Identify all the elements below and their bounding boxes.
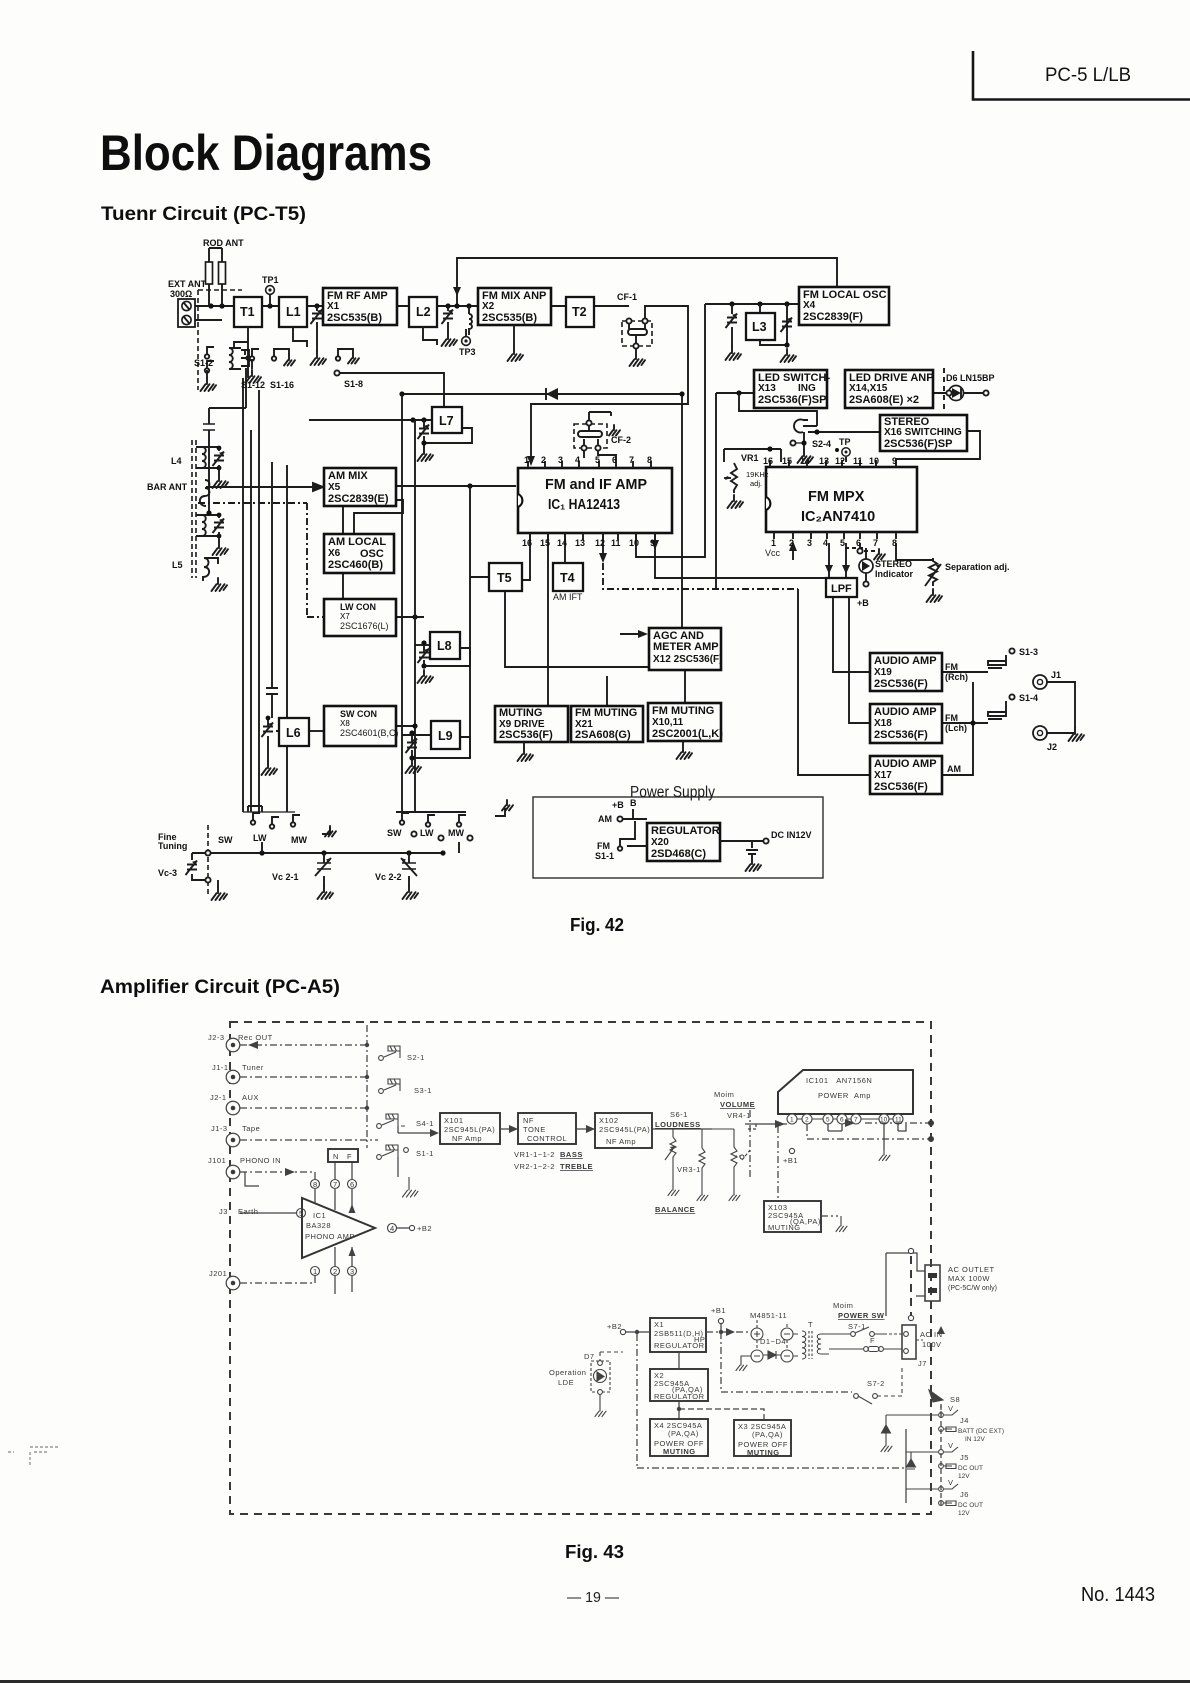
svg-text:12V: 12V [958, 1510, 970, 1517]
svg-text:X5: X5 [328, 482, 341, 493]
test point TP at MPX [835, 437, 851, 462]
svg-text:8: 8 [647, 455, 652, 465]
wire: LED drive to D6 [933, 392, 985, 394]
bar antenna dashed core [192, 440, 196, 578]
wire: AM to audio amp X17 [798, 589, 870, 775]
wire: X21 muting feed [606, 676, 608, 706]
op-amp pin 6 [348, 1180, 357, 1189]
wire: T5 input column [470, 486, 489, 758]
mixer X5 AM MIX [324, 468, 396, 506]
svg-text:T1: T1 [240, 305, 255, 319]
svg-text:7: 7 [629, 455, 634, 465]
svg-text:3: 3 [558, 455, 563, 465]
amp X2 FM MIX ANP [478, 288, 551, 325]
tuned circuit beside S1-2 [229, 348, 249, 369]
wire: stereo S2-4 row [808, 431, 880, 433]
svg-text:11: 11 [611, 538, 621, 548]
svg-text:X1: X1 [654, 1320, 664, 1329]
wire: X1 to rectifier [706, 1331, 751, 1333]
main power switch S7-1 [829, 1301, 885, 1336]
svg-text:2SC536(F)SP: 2SC536(F)SP [884, 438, 952, 450]
switch S4-1 [377, 1114, 434, 1128]
scan artifact bottom edge [0, 1680, 1190, 1683]
svg-text:S2-1: S2-1 [407, 1053, 425, 1062]
op-amp pin 5 [297, 1209, 306, 1218]
svg-text:Vc-3: Vc-3 [158, 868, 177, 878]
svg-text:MW: MW [448, 828, 464, 838]
svg-text:6: 6 [840, 1117, 844, 1124]
power amp IC101 AN7156N [778, 1070, 913, 1114]
tuning cap Vc2-2 [375, 853, 418, 899]
test point TP1 [262, 275, 279, 306]
op-amp pin 7 [331, 1180, 340, 1189]
svg-text:Indicator: Indicator [875, 569, 914, 579]
svg-text:X7: X7 [340, 612, 350, 621]
svg-text:L3: L3 [752, 320, 767, 334]
wire to bus [262, 828, 330, 853]
svg-text:ING: ING [798, 383, 816, 394]
wire: X2 to muting amps [678, 1401, 680, 1419]
power supply enclosure [533, 797, 823, 878]
converter X7 LW CON [324, 599, 396, 636]
svg-text:FM LOCAL OSC: FM LOCAL OSC [803, 289, 887, 301]
svg-text:2SC536(F): 2SC536(F) [874, 678, 928, 690]
svg-text:No. 1443: No. 1443 [1081, 1584, 1155, 1606]
svg-text:FM: FM [945, 662, 958, 672]
svg-text:2SC535(B): 2SC535(B) [482, 312, 537, 324]
wire: X102 to loudness [652, 1128, 712, 1130]
wire: CF-1 output to IC1 pin1 [531, 306, 688, 461]
svg-text:Block Diagrams: Block Diagrams [100, 125, 432, 181]
svg-text:Tuner: Tuner [242, 1063, 264, 1072]
wire: switch commons [398, 1126, 436, 1177]
ground at MPX pin6 [874, 549, 885, 560]
wire: tone control to X102 [576, 1128, 595, 1130]
node: junction dots on signal row [208, 303, 213, 308]
wire: X1 to X2 [678, 1352, 680, 1369]
AC inlet J7 [884, 1325, 945, 1368]
svg-text:12V: 12V [958, 1473, 970, 1480]
header rule for model name [973, 51, 1190, 100]
main volume pot VR4-1 [712, 1090, 755, 1201]
coil L5 winding [196, 515, 219, 536]
svg-text:X14,X15: X14,X15 [849, 383, 888, 394]
svg-text:1: 1 [771, 538, 776, 548]
wire: pin5 stub [828, 1124, 842, 1131]
amp X19 AUDIO AMP [870, 653, 942, 691]
amp X9 MUTING DRIVE [495, 706, 568, 742]
svg-text:2SC536(F): 2SC536(F) [499, 729, 553, 741]
jack J101 PHONO IN [226, 1165, 240, 1179]
wire: selector bus vertical [366, 1025, 368, 1148]
node diode line junctions [399, 391, 404, 396]
svg-text:AM MIX: AM MIX [328, 470, 368, 482]
svg-text:10: 10 [869, 456, 879, 466]
svg-text:L2: L2 [416, 305, 431, 319]
svg-text:LW CON: LW CON [340, 602, 376, 612]
svg-text:BAR ANT: BAR ANT [147, 482, 188, 492]
regulator X2 [650, 1369, 708, 1401]
svg-text:S1-4: S1-4 [1019, 693, 1038, 703]
svg-text:8: 8 [892, 538, 897, 548]
transformer T5 [489, 563, 522, 591]
osc X4 FM LOCAL OSC [799, 287, 889, 325]
svg-text:1: 1 [790, 1117, 794, 1124]
fuse F [829, 1336, 902, 1352]
amp X101 NF Amp [440, 1113, 500, 1144]
wire: IC1 pin15 to muting drive [547, 533, 549, 706]
trimmer L5 [213, 513, 229, 555]
jack J2-1 AUX [226, 1101, 240, 1115]
power transformer T [793, 1320, 829, 1359]
svg-text:L9: L9 [438, 729, 453, 743]
stereo indicator LED [857, 559, 914, 608]
svg-text:6: 6 [856, 538, 861, 548]
node: local osc row dots [729, 301, 734, 306]
svg-text:S1-16: S1-16 [270, 380, 294, 390]
svg-text:— 19 —: — 19 — [567, 1589, 619, 1606]
svg-text:S7-2: S7-2 [867, 1379, 885, 1388]
wire: left long columns to band switches [243, 378, 287, 812]
svg-text:BASS: BASS [560, 1150, 583, 1159]
op-amp pin 4 output [388, 1224, 397, 1233]
N F feedback box [328, 1149, 358, 1162]
trimmer after L2 [442, 306, 458, 346]
svg-text:N: N [333, 1152, 339, 1161]
switch SW1 pole [248, 806, 262, 812]
svg-text:S1-12: S1-12 [241, 380, 265, 390]
wire: IC1 pin12 AM line [602, 533, 604, 558]
svg-text:D6 LN15BP: D6 LN15BP [946, 373, 995, 383]
svg-text:J7: J7 [918, 1359, 927, 1368]
svg-text:BATT (DC EXT): BATT (DC EXT) [958, 1428, 1004, 1435]
svg-text:2SC460(B): 2SC460(B) [328, 559, 383, 571]
svg-text:L5: L5 [172, 560, 183, 570]
svg-text:VR1-1~1-2: VR1-1~1-2 [514, 1150, 555, 1159]
svg-text:5: 5 [299, 1209, 304, 1218]
wire: X101 to tone control [500, 1128, 518, 1130]
svg-text:FM MPX: FM MPX [808, 489, 865, 505]
svg-text:AUDIO AMP: AUDIO AMP [874, 706, 937, 718]
jack J2-3 Rec OUT [226, 1038, 240, 1052]
relay S8 [929, 1390, 960, 1404]
svg-text:L8: L8 [437, 639, 452, 653]
svg-text:MAX 100W: MAX 100W [948, 1274, 990, 1283]
ground under muting drive X9 [518, 742, 534, 761]
svg-text:D7: D7 [584, 1352, 595, 1361]
svg-text:BA328: BA328 [306, 1221, 331, 1230]
svg-text:CF-1: CF-1 [617, 292, 637, 302]
svg-text:16: 16 [763, 456, 773, 466]
terminal S1-8 [334, 370, 339, 375]
coil L8 [430, 632, 460, 659]
wire: IC1 pin16 to T5 [522, 533, 530, 580]
svg-text:TP3: TP3 [459, 347, 476, 357]
wire: B2 rail down [637, 1334, 905, 1468]
svg-text:PHONO IN: PHONO IN [240, 1156, 281, 1165]
switch S7-2 [854, 1366, 902, 1404]
svg-text:X19: X19 [874, 667, 892, 678]
svg-text:2SD468(C): 2SD468(C) [651, 848, 706, 860]
svg-text:IC1: IC1 [313, 1211, 326, 1220]
svg-text:J2-3: J2-3 [208, 1033, 225, 1042]
arrow into AGC [638, 630, 648, 638]
svg-text:(Rch): (Rch) [945, 672, 968, 682]
output selector S1-3 [988, 647, 1038, 668]
svg-text:TP: TP [839, 437, 851, 447]
svg-text:PC-5 L/LB: PC-5 L/LB [1045, 65, 1131, 86]
svg-text:(PA,QA): (PA,QA) [668, 1429, 699, 1438]
svg-text:2SA608(E) ×2: 2SA608(E) ×2 [849, 394, 919, 406]
wire: MPX pin8 separation network [896, 543, 933, 560]
capacitor on column x272 [266, 688, 278, 694]
node LED feed [736, 390, 741, 395]
switch S2-4 [790, 420, 831, 464]
trimmer L9 [406, 739, 418, 754]
svg-text:DC IN12V: DC IN12V [771, 830, 812, 840]
coil after L2 [469, 306, 472, 335]
svg-text:J2-1: J2-1 [210, 1093, 227, 1102]
wire: J1 J2 ground link [1047, 682, 1075, 733]
wire: stereo indicator chain [865, 548, 867, 581]
switch S1-12 [241, 349, 265, 390]
svg-text:J4: J4 [960, 1416, 969, 1425]
amp X17 AUDIO AMP [870, 756, 942, 794]
svg-text:X20: X20 [651, 837, 669, 848]
svg-text:S1-1: S1-1 [595, 851, 614, 861]
tuning cap Vc2-1 [272, 853, 333, 899]
svg-text:2SC536(F): 2SC536(F) [874, 781, 928, 793]
trimmer L8 [418, 649, 430, 664]
arrow into IC1 pin 1 [527, 456, 535, 466]
wire: earth to op-amp [240, 1212, 297, 1214]
transformer T1 [234, 297, 262, 327]
svg-text:SW: SW [387, 828, 402, 838]
svg-text:LOUDNESS: LOUDNESS [655, 1120, 701, 1129]
svg-text:NF: NF [523, 1116, 534, 1125]
svg-text:9: 9 [892, 456, 897, 466]
svg-text:9: 9 [650, 538, 655, 548]
coil L1 [279, 297, 307, 327]
rectifier M4851-11 D1-D4 [736, 1311, 793, 1371]
trimmer L4 [213, 446, 229, 488]
osc X6 AM LOCAL OSC [324, 534, 394, 573]
svg-text:+B: +B [612, 800, 624, 810]
svg-text:Power Supply: Power Supply [630, 784, 715, 801]
potentiometer VR1 19KHz adj [724, 453, 769, 508]
svg-text:MW: MW [291, 835, 307, 845]
svg-text:Amplifier Circuit (PC-A5): Amplifier Circuit (PC-A5) [100, 977, 340, 998]
svg-text:Operation: Operation [549, 1368, 586, 1377]
rod antenna resistors [203, 238, 244, 306]
wire: pin10 ground [883, 1124, 885, 1150]
muting amp X3 [734, 1420, 791, 1456]
svg-text:SW: SW [218, 835, 233, 845]
bar loop winding [200, 480, 323, 506]
svg-text:FM: FM [597, 841, 610, 851]
DC jack group J5 [939, 1441, 983, 1480]
svg-text:+B2: +B2 [417, 1224, 432, 1233]
wire: long column x415 [414, 420, 416, 812]
wire: X103 to ground [821, 1215, 838, 1217]
svg-text:12: 12 [835, 456, 845, 466]
svg-text:L7: L7 [439, 414, 454, 428]
switch S1-16 [270, 349, 295, 390]
svg-text:J3: J3 [219, 1207, 228, 1216]
wire: outlet to power sw [886, 1253, 925, 1316]
svg-text:CF-2: CF-2 [611, 435, 631, 445]
wire: L3 connections [732, 304, 787, 347]
svg-text:LPF: LPF [831, 583, 852, 595]
svg-text:V: V [948, 1478, 954, 1487]
svg-text:IN 12V: IN 12V [965, 1436, 986, 1443]
NF tone control block [518, 1113, 576, 1144]
svg-text:Vcc: Vcc [765, 548, 781, 558]
converter X8 SW CON [324, 706, 396, 746]
svg-text:(PA,QA): (PA,QA) [752, 1430, 783, 1439]
svg-text:S8: S8 [950, 1395, 960, 1404]
jack J1-3 Tape [226, 1133, 240, 1147]
svg-text:3: 3 [807, 538, 812, 548]
wire: muting feed vertical [684, 670, 686, 703]
svg-text:13: 13 [575, 538, 585, 548]
svg-text:AC OUTLET: AC OUTLET [948, 1265, 995, 1274]
svg-text:8: 8 [313, 1180, 318, 1189]
svg-text:5: 5 [826, 1117, 830, 1124]
amp X12 AGC AND METER AMP [649, 628, 721, 670]
contact rail [243, 811, 295, 813]
svg-text:Earth: Earth [238, 1207, 258, 1216]
wire: feedback top line to FM local osc [457, 258, 837, 306]
svg-text:NF Amp: NF Amp [452, 1134, 482, 1143]
ground under X2 [508, 325, 524, 361]
diode to J4 [881, 1415, 938, 1489]
diode D6 LN15BP [946, 373, 995, 401]
svg-text:+B1: +B1 [783, 1156, 798, 1165]
ground below switches [403, 1177, 419, 1197]
wire: FM local osc row [705, 303, 799, 305]
svg-text:+B: +B [857, 598, 869, 608]
svg-text:1: 1 [313, 1267, 318, 1276]
svg-text:S3-1: S3-1 [414, 1086, 432, 1095]
amp X10 X11 FM MUTING [648, 703, 721, 741]
coil L3 [746, 313, 775, 340]
svg-text:Rec OUT: Rec OUT [238, 1033, 273, 1042]
switch S1-1 [377, 1145, 434, 1159]
ground CF-2 [609, 425, 620, 436]
svg-text:2SC535(B): 2SC535(B) [327, 312, 382, 324]
svg-text:+B1: +B1 [711, 1306, 726, 1315]
AM line capacitor [203, 368, 246, 516]
svg-text:4: 4 [575, 455, 580, 465]
dashed: D6 board edge [943, 368, 945, 412]
svg-text:X10,11: X10,11 [652, 717, 684, 728]
svg-text:S1-2: S1-2 [194, 358, 213, 368]
svg-text:2SA608(G): 2SA608(G) [575, 729, 631, 741]
svg-text:Tape: Tape [242, 1124, 260, 1133]
svg-text:IC₂AN7410: IC₂AN7410 [801, 509, 875, 525]
scan artifact left margin [8, 1447, 58, 1466]
svg-text:AUDIO AMP: AUDIO AMP [874, 758, 937, 770]
svg-text:MUTING: MUTING [499, 707, 542, 719]
svg-text:DC OUT: DC OUT [958, 1465, 983, 1472]
svg-text:Tuning: Tuning [158, 841, 187, 851]
svg-text:4: 4 [823, 538, 828, 548]
regulator output to DC jack [720, 840, 765, 842]
wire: MPX pin2 up arrow [792, 543, 794, 560]
svg-text:VR4-1: VR4-1 [727, 1111, 751, 1120]
svg-text:L1: L1 [286, 305, 301, 319]
wire: AM local to LW con [342, 573, 344, 599]
wire: L9 trimmer loop [412, 735, 470, 758]
muting amp X4 [650, 1419, 708, 1456]
ground under FM muting X10 [677, 741, 693, 759]
jack J201 [226, 1276, 240, 1290]
L5 link winding [203, 558, 227, 591]
svg-text:X18: X18 [874, 718, 892, 729]
operation LED D7 [549, 1352, 623, 1417]
svg-text:J1: J1 [1051, 670, 1061, 680]
L1 bottom stub [293, 327, 307, 347]
wire: tape rail [240, 1139, 378, 1141]
power amp pin circles [787, 1114, 903, 1124]
amp X18 AUDIO AMP [870, 704, 942, 743]
node tuning bus [259, 850, 264, 855]
svg-text:J2: J2 [1047, 742, 1057, 752]
coil L2 [409, 297, 437, 327]
wire: MPX pins to LPF [829, 543, 846, 578]
svg-text:V: V [948, 1404, 954, 1413]
wire: rec out rail [240, 1044, 367, 1046]
antenna unit dashed outline [198, 290, 242, 390]
trimmer at L7 [418, 425, 434, 462]
switch S1-2 cluster [194, 347, 216, 391]
dash line to LW con [198, 503, 324, 617]
op-amp IC1 BA328 phono amp [302, 1198, 375, 1258]
muting amp X103 [764, 1201, 821, 1232]
svg-text:STEREO: STEREO [875, 559, 912, 569]
wire: AGC feed vertical [681, 394, 683, 628]
op-amp pins 1 2 3 [311, 1267, 320, 1276]
svg-text:13: 13 [819, 456, 829, 466]
svg-text:MUTING: MUTING [768, 1223, 801, 1232]
svg-text:T2: T2 [572, 305, 587, 319]
svg-text:S1-3: S1-3 [1019, 647, 1038, 657]
svg-text:5: 5 [840, 538, 845, 548]
svg-text:T: T [808, 1320, 813, 1329]
svg-text:Fig. 43: Fig. 43 [565, 1542, 624, 1562]
wire: L6 to SW con [309, 730, 324, 732]
trimmer at x787 [781, 318, 797, 363]
svg-text:X101: X101 [444, 1116, 464, 1125]
svg-text:POWER SW: POWER SW [838, 1311, 885, 1320]
svg-text:VR1: VR1 [741, 453, 759, 463]
DC jack group J6 [939, 1478, 983, 1517]
svg-text:J1-1: J1-1 [212, 1063, 229, 1072]
balance pot VR3-1 [655, 1129, 708, 1214]
amp X13 LED SWITCHING [754, 370, 827, 408]
svg-text:AM: AM [947, 764, 961, 774]
DC jack group J4 [939, 1404, 1004, 1443]
wire: audio outputs [942, 672, 988, 775]
svg-text:L4: L4 [171, 456, 182, 466]
svg-text:AM LOCAL: AM LOCAL [328, 536, 386, 548]
svg-text:14: 14 [557, 538, 567, 548]
svg-text:X8: X8 [340, 719, 350, 728]
svg-text:J1-3: J1-3 [211, 1124, 228, 1133]
svg-text:AM IFT: AM IFT [553, 592, 583, 602]
wire: S8 to DC [940, 1404, 942, 1415]
